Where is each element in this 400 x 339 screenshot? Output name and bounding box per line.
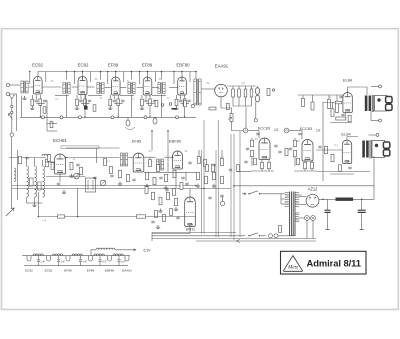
capacitor heater bypass 119 xyxy=(118,260,121,261)
transformer IF6 AM xyxy=(120,153,122,166)
resistor inline AM bus a xyxy=(58,215,65,218)
wire drop to AM bus xyxy=(77,189,79,217)
connector circle on bus at 43 xyxy=(42,116,45,119)
resistor detector load 233 xyxy=(232,89,235,97)
transformer OT2 primary winding xyxy=(362,141,365,158)
resistor tone R2 xyxy=(336,104,339,113)
arrow bus start xyxy=(9,114,13,120)
resistor EL84-1 r3 xyxy=(348,115,351,122)
junction bus stage 1 xyxy=(40,116,42,118)
svg-text:EF89: EF89 xyxy=(64,269,72,273)
wire rail y235 xyxy=(152,235,245,237)
wire stage link 169.2-177.7 xyxy=(169,87,178,89)
inductor heater line choke xyxy=(96,248,115,250)
junction top bus x196 xyxy=(195,71,197,73)
wire main bus y117 xyxy=(20,116,196,118)
resistor AF stage 1 cathode xyxy=(261,162,264,169)
resistor tone R1 xyxy=(328,100,331,109)
wire dial drop xyxy=(96,149,98,164)
wire stage drop to bus 3 xyxy=(117,106,119,118)
resistor cathode stage 4 xyxy=(141,99,144,106)
resistor R below IF strip at 156.5 xyxy=(155,100,158,107)
wire grid return 88 xyxy=(88,95,102,97)
junction AM bus drop xyxy=(77,216,79,218)
wire lamp2 lead xyxy=(312,220,314,238)
resistor R cluster at 174,192 xyxy=(173,189,176,196)
wire ferrite coil gnd a xyxy=(26,198,28,204)
wire terminal lead xyxy=(222,196,224,201)
wire B+ drop x82.5 xyxy=(82,72,84,80)
capacitor cathode bypass stage 1 xyxy=(35,100,38,102)
junction HT out xyxy=(322,199,324,201)
wire mains a xyxy=(260,193,281,195)
transformer OT1 core xyxy=(372,95,373,112)
capacitor cathode bypass stage 2 xyxy=(79,100,82,102)
resistor AF stage 2 low xyxy=(297,158,300,165)
capacitor C band at 214,165 xyxy=(212,164,215,166)
wire cathode drop stage 4 xyxy=(141,95,143,99)
mains terminal arrows xyxy=(242,193,246,195)
resistor R mid at 176,202 xyxy=(175,198,178,206)
wire tone drop0b xyxy=(312,95,314,102)
wire B+ drop x182 xyxy=(181,72,183,80)
connector circle det xyxy=(254,119,257,122)
filament symbol at 48.5 xyxy=(47,256,51,261)
capacitor AF at 276,146 xyxy=(274,145,277,147)
wire B+ drop x147.5 xyxy=(147,72,149,80)
wire detector load drop 251.5 xyxy=(251,86,253,89)
transformer IF2 xyxy=(97,83,99,94)
resistor R below IF strip at 227.8 xyxy=(226,103,229,110)
filament symbol at 127 xyxy=(125,256,129,261)
junction riser 147.5 xyxy=(139,71,141,73)
junction mid a xyxy=(65,157,67,159)
capacitor C mid at 183,178 xyxy=(181,177,184,179)
capacitor C mid at 210,198 xyxy=(208,197,211,199)
svg-text:Admiral 8/11: Admiral 8/11 xyxy=(307,258,362,269)
svg-text:2nF: 2nF xyxy=(121,259,126,263)
transformer TR1 power transformer xyxy=(290,192,295,237)
svg-text:EM11: EM11 xyxy=(186,228,195,232)
wire bypass drop stage 2 xyxy=(80,95,82,99)
wire vertical bus x218 xyxy=(217,120,219,237)
capacitor heater bypass 58.5 xyxy=(57,260,60,261)
ground cathode stage 2 xyxy=(75,106,79,109)
capacitor heater bypass 100 xyxy=(99,260,102,261)
tube V4 EF89 pentode xyxy=(143,77,152,95)
wire detector load drop 239 xyxy=(238,86,240,89)
wire eye pin xyxy=(189,224,191,234)
capacitor variable tuning at 103 xyxy=(100,180,106,186)
wire grid return 120 xyxy=(120,95,134,97)
wire EL84-2 plate to OT xyxy=(347,137,358,141)
title box xyxy=(281,251,367,274)
connector circle on bus at 61.5 xyxy=(60,116,63,119)
transformer IF3 xyxy=(128,83,130,94)
wire bypass drop stage 1 xyxy=(35,95,37,99)
resistor R band at 111,170 xyxy=(110,167,113,174)
wire stage link 87-94.3 xyxy=(87,86,94,88)
terminal C1 top xyxy=(379,85,382,88)
ground cathode stage 5 xyxy=(174,106,178,109)
speaker LS1 frame xyxy=(375,96,388,112)
wire tone drop2 xyxy=(336,95,338,103)
wire grid return 55 xyxy=(55,95,69,97)
connector circle on bus at 177 xyxy=(176,116,179,119)
wire riser right stage 147.5 xyxy=(155,72,157,83)
inductor heater choke at 52.5 xyxy=(53,254,63,256)
svg-text:220: 220 xyxy=(298,194,303,197)
junction top bus x147.5 xyxy=(147,71,149,73)
junction B+ dist xyxy=(233,185,235,187)
tube V6 EAA91 dual diode xyxy=(215,84,228,97)
junction band a xyxy=(151,130,153,132)
resistor R mid at 222,180 xyxy=(221,176,224,184)
wire heater cap lead 58.5 xyxy=(58,256,60,260)
junction choke out xyxy=(361,199,363,201)
resistor detector load 251.5 xyxy=(250,89,253,97)
resistor R band at 207,168 xyxy=(206,165,209,172)
wire cluster v1 xyxy=(149,158,151,160)
transformer IF1 xyxy=(63,83,65,94)
resistor AF stage 1 grid xyxy=(251,140,254,147)
wire screen drop stage 3 xyxy=(117,95,119,99)
wire AF stage 1 v2 xyxy=(251,157,253,166)
resistor det out xyxy=(267,89,270,96)
junction top bus x66.5 xyxy=(66,71,68,73)
wire stage link 120-126.3 xyxy=(120,87,126,89)
transformer OT2 core xyxy=(370,140,371,159)
wire detector load drop2 251.5 xyxy=(251,97,253,106)
tube V12 ECC83 half xyxy=(302,140,313,161)
resistor R mid at 153,196 xyxy=(152,192,155,200)
wire stage1 h1 xyxy=(47,123,57,125)
wire ferrite coil lead b xyxy=(34,158,36,166)
wire riser left stage 82.5 xyxy=(74,72,76,85)
wire bypass drop stage 4 xyxy=(145,95,147,99)
wire to EL84 grid xyxy=(323,102,342,104)
capacitor EL84-2 cathode bypass xyxy=(348,167,351,169)
capacitor C cluster at 167,190 xyxy=(165,189,168,191)
wire EL84-2 grid wire xyxy=(316,149,342,151)
wire vertical bus x201 xyxy=(201,150,203,234)
wire stage bottom jog 4 xyxy=(146,103,155,105)
wire C100 lead up xyxy=(327,199,329,210)
capacitor C mid at 222,196 xyxy=(220,195,223,197)
wire ift drop 131.5 xyxy=(131,95,133,118)
wire detector load drop2 233 xyxy=(232,97,234,106)
ground cathode stage 3 xyxy=(108,106,112,109)
filament symbol at 29 xyxy=(27,256,31,261)
wire HT a xyxy=(299,196,306,198)
wire heater cap lead 38.5 xyxy=(38,256,40,260)
terminal pickup xyxy=(10,133,14,137)
ground cluster a xyxy=(174,207,178,210)
wire EL84-1 bottom xyxy=(330,122,352,124)
junction mid b xyxy=(172,156,174,158)
inductor osc coil xyxy=(42,154,50,156)
wire stage bottom jog 5 xyxy=(181,103,190,105)
arrow 6.3V xyxy=(133,249,136,251)
wire EL84-1 plate to OT xyxy=(348,87,367,95)
wire band drop d xyxy=(221,150,223,159)
resistor R mid at 206,180 xyxy=(205,176,208,184)
junction bus stage 3 xyxy=(118,116,120,118)
capacitor FM tuner C1 xyxy=(25,157,28,159)
lamp dial La2 xyxy=(311,216,316,221)
antenna terminal a xyxy=(11,105,13,107)
wire grid return 152 xyxy=(152,95,166,97)
wire ground bus right b xyxy=(317,171,370,173)
wire stage link 136.7-143.2 xyxy=(137,87,144,89)
wire vertical bus x234 xyxy=(233,134,235,240)
svg-text:2nF: 2nF xyxy=(61,259,66,263)
capacitor AF stage 2 a xyxy=(289,148,292,150)
ground cluster b xyxy=(156,225,160,228)
svg-text:AZ12: AZ12 xyxy=(308,187,319,192)
capacitor C band at 230.5,170 xyxy=(229,169,232,171)
resistor R band at 222,162 xyxy=(221,159,224,166)
resistor tone R0b xyxy=(311,102,314,110)
speaker LS2 magnet rings xyxy=(383,142,389,148)
wire B+ drop x131.5 xyxy=(131,72,133,80)
resistor EL84-2 grid xyxy=(325,146,328,154)
wire to C2 top xyxy=(369,134,377,136)
dial scale box xyxy=(61,146,99,149)
wire AF stage 2 gndrail xyxy=(294,170,317,172)
resistor screen stage 3 xyxy=(117,99,120,106)
wire mid bus y185 xyxy=(12,185,196,187)
wire riser right stage 37.8 xyxy=(45,72,47,83)
wire heater to 6.3V xyxy=(91,250,96,256)
resistor R mid at 120,174 xyxy=(119,170,122,178)
wire B+ drop x161.5 xyxy=(161,72,163,80)
resistor R cluster at 150,163 xyxy=(149,160,152,167)
tube V1 EC92 triode xyxy=(34,77,43,94)
capacitor C mid at 161,178 xyxy=(159,177,162,179)
junction top bus x82.5 xyxy=(82,71,84,73)
wire ell b lead xyxy=(154,116,156,119)
junction bus stage 5 xyxy=(184,116,186,118)
wire C101 up xyxy=(361,199,363,210)
terminal headphone xyxy=(220,201,224,205)
junction top bus x161.5 xyxy=(161,71,163,73)
junction top bus x115.75 xyxy=(115,71,117,73)
terminal C1 bottom xyxy=(379,119,382,122)
wire heater cap lead 100 xyxy=(99,256,101,260)
resistor inline AM bus b xyxy=(137,215,146,218)
resistor R band at 238,168 xyxy=(237,165,240,172)
capacitor electrolytic ratio det xyxy=(255,88,259,95)
svg-text:EL84: EL84 xyxy=(343,78,353,83)
ground mid at 71.5,170 xyxy=(69,174,73,177)
wire AF stage 2 pin2 xyxy=(311,169,313,171)
wire ECH81 k xyxy=(59,175,61,183)
resistor screen stage 2 xyxy=(84,99,87,106)
wire tone vert xyxy=(322,102,324,181)
connector circle on bus at 80 xyxy=(79,116,82,119)
junction bus stage 2 xyxy=(84,116,86,118)
resistor R stage1 extra2 xyxy=(50,121,53,128)
arrow rail end xyxy=(236,240,240,243)
capacitor C mid at 134,180 xyxy=(132,179,135,181)
junction riser 82.5 xyxy=(74,71,76,73)
wire ferrite coil lead a xyxy=(26,158,28,166)
resistor R stage1 extra xyxy=(43,107,46,114)
wire to C1 bottom xyxy=(371,120,379,122)
speaker LS1 magnet rings xyxy=(386,97,392,103)
svg-text:EC92: EC92 xyxy=(45,269,53,273)
coupling box antenna coils xyxy=(30,178,34,186)
resistor R mid at 174.5,174 xyxy=(173,170,176,178)
resistor cathode stage 1 xyxy=(31,99,34,106)
wire mid grid bus xyxy=(66,157,120,159)
resistor R mid at 213,168 xyxy=(212,164,215,172)
capacitor C mid at 190,163 xyxy=(188,162,191,164)
resistor near trimmer xyxy=(93,105,96,112)
wire detector bottom xyxy=(233,105,252,107)
ground mid at 160.5,205 xyxy=(158,209,162,212)
wire ift drop 161.5 xyxy=(161,95,163,118)
wire heater winding to lamps xyxy=(299,217,304,219)
wire AF link2 xyxy=(289,130,302,132)
capacitor C mid at 78,165 xyxy=(76,164,79,166)
inductor antenna coil 2 xyxy=(35,166,37,197)
wire stage link 151.8-158.8 xyxy=(152,87,159,89)
resistor cathode stage 2 xyxy=(76,99,79,106)
capacitor C mid at 112,176 xyxy=(110,175,113,177)
wire B+ drop x66.5 xyxy=(66,72,68,80)
resistor EL84-1 cathode xyxy=(331,109,334,117)
antenna input terminal 1 xyxy=(6,83,9,86)
wire B+ distribution xyxy=(234,185,374,187)
wire tuner top link xyxy=(9,157,46,159)
wire stage drop to bus 1 xyxy=(39,106,41,118)
junction riser 37.8 xyxy=(29,71,31,73)
wire mid bus y188 xyxy=(12,188,231,190)
antenna dipole xyxy=(11,98,13,133)
wire AF stage 1 k2 xyxy=(268,160,270,162)
resistor R cluster at 156,214 xyxy=(155,211,158,218)
wire vertical bus x204 xyxy=(203,120,205,234)
junction bus stage 4 xyxy=(149,116,151,118)
resistor R cluster at 52.5,166 xyxy=(51,163,54,170)
node circle 2 xyxy=(284,128,289,133)
wire AF link1 xyxy=(248,130,259,132)
resistor detector load 245.5 xyxy=(244,89,247,97)
trimmer dark blob xyxy=(84,106,88,110)
tube V8 EF85 pentode xyxy=(133,153,144,172)
wire bypass drop stage 5 xyxy=(180,95,182,99)
wire stage link 201.2-214.7 xyxy=(201,88,215,90)
wire band drop a xyxy=(151,131,153,150)
capacitor cathode bypass stage 5 xyxy=(179,100,182,102)
wire heater to arrow xyxy=(115,249,136,251)
wire input drop b xyxy=(21,96,23,118)
wire primary left xyxy=(280,194,282,204)
lamp dial La1 xyxy=(305,216,310,221)
wire riser right stage 182 xyxy=(189,72,191,83)
capacitor screen bypass stage 1 xyxy=(43,100,46,102)
transformer IF7 AM xyxy=(156,159,158,170)
wire vertical bus x240 xyxy=(239,131,241,237)
terminal C2 top xyxy=(376,134,379,137)
wire screen drop stage 2 xyxy=(84,95,86,99)
wire screen drop stage 1 xyxy=(39,95,41,99)
resistor cathode stage 5 xyxy=(175,99,178,106)
capacitor C band at 246,162 xyxy=(244,161,247,163)
tube V13 EL84 output pentode xyxy=(343,92,352,112)
wire AF stage 1 pin2 xyxy=(268,169,270,171)
terminal det small xyxy=(272,89,274,91)
resistor EL84-2 cathode xyxy=(331,154,334,162)
capacitor AF at 258,134 xyxy=(256,133,259,135)
resistor R band at 105,162 xyxy=(104,159,107,166)
capacitor AF stage 1 a xyxy=(246,148,249,150)
wire primary tap2 xyxy=(281,198,285,200)
wire mains b xyxy=(260,235,266,237)
resistor detector out xyxy=(209,107,216,110)
wire detector load drop 245.5 xyxy=(245,86,247,89)
inductor heater choke at 33 xyxy=(33,254,43,256)
tube V3 EF89 pentode xyxy=(111,77,120,95)
wire screen drop stage 5 xyxy=(184,95,186,99)
wire detector load drop2 245.5 xyxy=(245,97,247,106)
connector circle on bus at 145.5 xyxy=(144,116,147,119)
wire AF stage 2 pin1 xyxy=(304,169,306,171)
capacitor AF at 300,134 xyxy=(298,133,301,135)
wire stage link 71.5-78 xyxy=(72,86,79,88)
wire HT b xyxy=(299,204,306,206)
svg-text:ECH81: ECH81 xyxy=(53,138,67,143)
capacitor tone C1 xyxy=(339,96,342,98)
wire rail y232 xyxy=(152,232,236,234)
wire cluster v3 xyxy=(175,172,177,188)
inductor filter choke xyxy=(336,198,354,201)
switch contact circle at 162.5 xyxy=(161,104,164,107)
ground mid at 147,180 xyxy=(145,184,149,187)
resistor FM tuner R2 xyxy=(46,159,49,167)
wire mid bus y176 xyxy=(46,176,86,178)
wire EAA91 to volume pot xyxy=(221,97,232,114)
wire mid y172 xyxy=(144,171,196,173)
wire rail y241 xyxy=(196,240,316,242)
ground bar C100 xyxy=(326,229,330,231)
wire stage drop to bus 5 xyxy=(184,106,186,118)
wire AF in2 xyxy=(301,131,303,140)
junction AM bus xyxy=(38,216,40,218)
wire heater cap lead2 80.5 xyxy=(80,262,82,266)
antenna terminal b xyxy=(11,111,13,113)
filament symbol at 90.5 xyxy=(89,256,93,261)
wire AF stage 2 v1 xyxy=(294,138,296,140)
capacitor EL84-1 cathode bypass xyxy=(341,114,344,116)
resistor AF stage 1 low xyxy=(254,158,257,165)
svg-text:EBF80: EBF80 xyxy=(105,269,115,273)
wire AF stage 2 k2 xyxy=(311,160,313,162)
wire riser left stage 37.8 xyxy=(29,72,31,85)
svg-text:Metz: Metz xyxy=(287,265,298,271)
wire mid bus y162 xyxy=(45,161,55,163)
ground below L1 xyxy=(22,96,26,99)
transformer OT1 primary winding xyxy=(365,96,368,112)
oscillator coil box xyxy=(86,178,96,192)
svg-text:EBF80: EBF80 xyxy=(169,139,182,144)
resistor R mid at 166,178 xyxy=(165,174,168,182)
resistor R cluster at 146.5,190 xyxy=(145,187,148,194)
wire heater cap lead 80.5 xyxy=(80,256,82,260)
wire AF in1 xyxy=(258,131,260,139)
